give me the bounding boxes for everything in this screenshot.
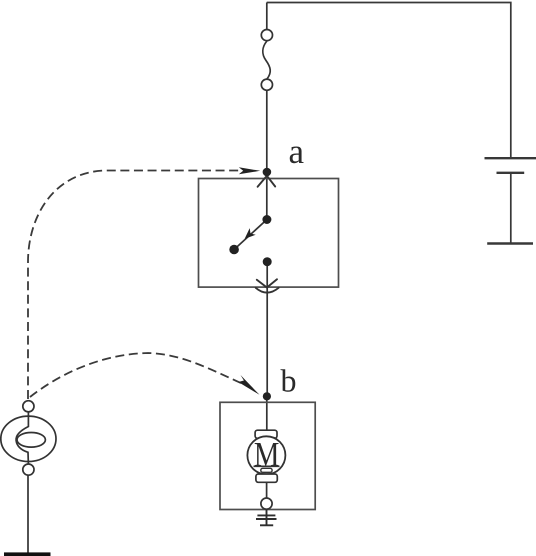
svg-text:b: b bbox=[281, 363, 297, 399]
svg-text:a: a bbox=[289, 132, 305, 171]
